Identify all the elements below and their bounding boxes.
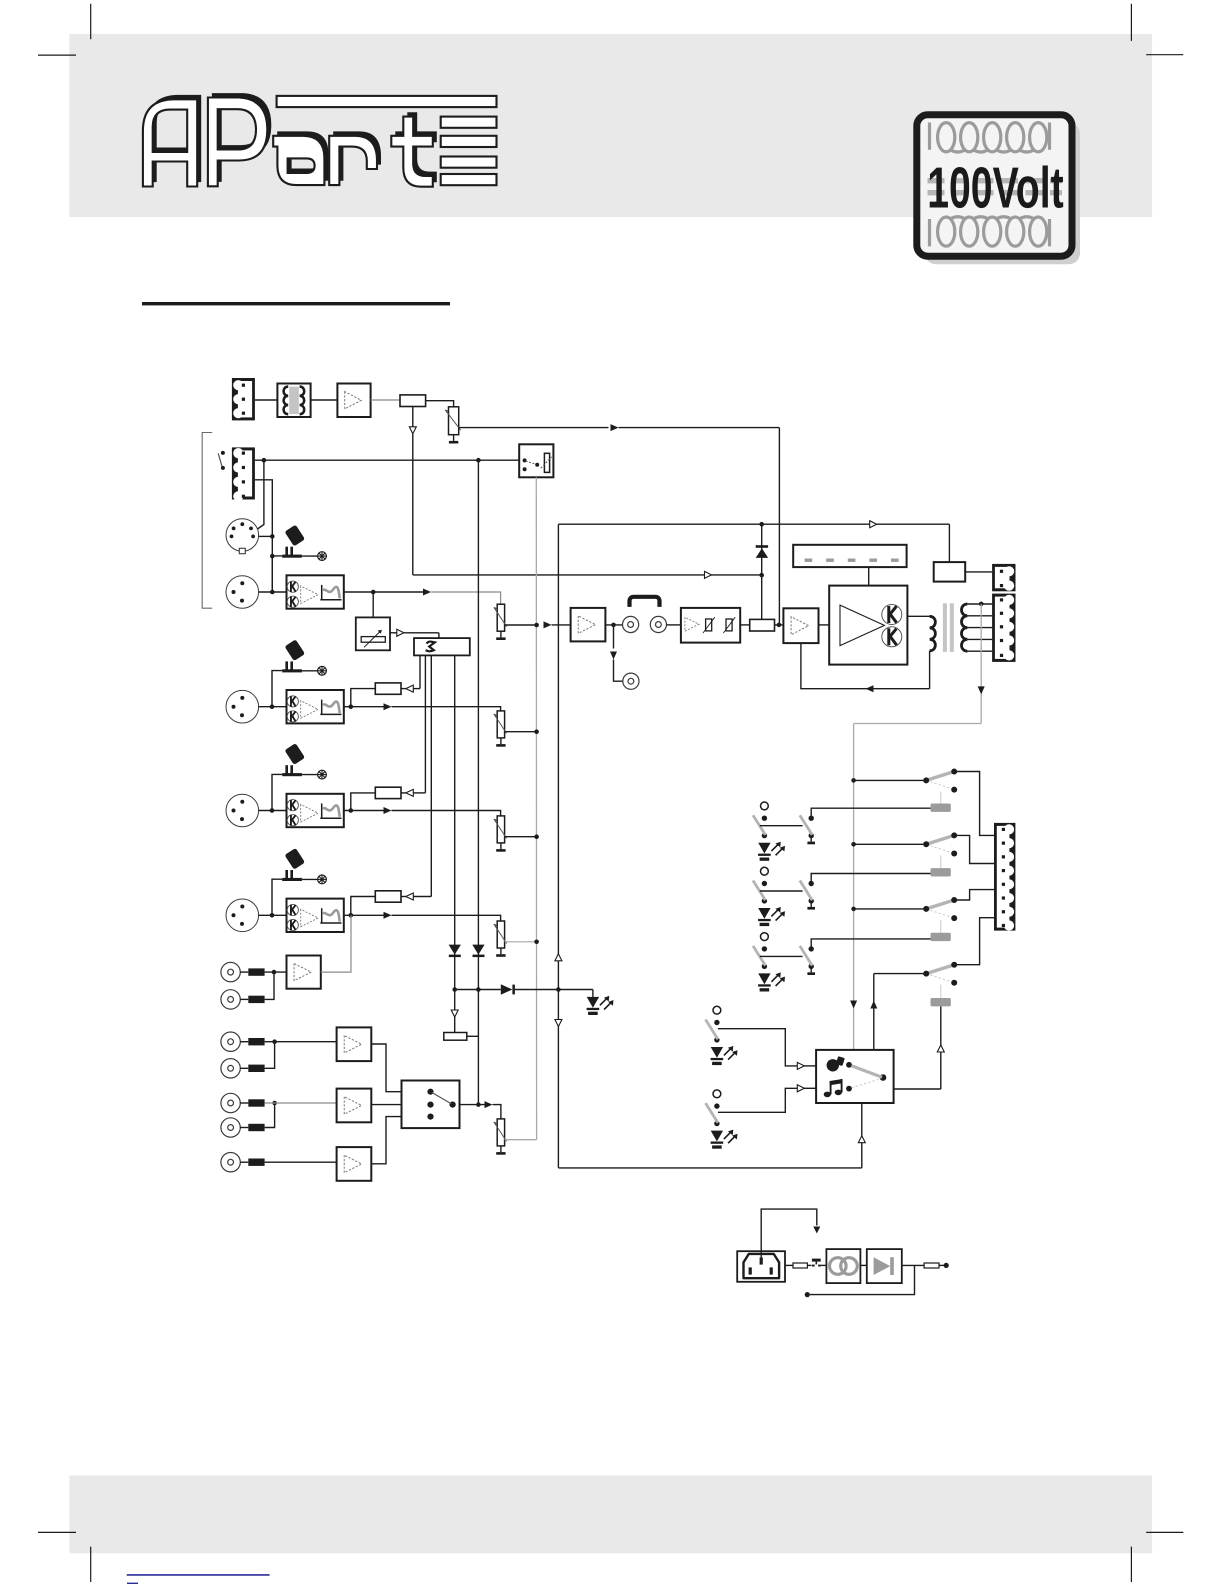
crop mark bottom-left horizontal — [38, 1531, 76, 1533]
badge dashed lines — [928, 178, 1063, 183]
power switch S4 — [812, 1259, 821, 1267]
footer band — [69, 1476, 1152, 1554]
wire ch2 to fader — [392, 707, 501, 711]
wire line3 to amp C — [265, 1161, 337, 1163]
arrow sense down — [978, 686, 985, 694]
24V supply box — [934, 562, 966, 582]
node ch4 out — [349, 913, 354, 918]
wire J2 to DIN — [258, 460, 264, 529]
wire ch2 preamp out — [344, 706, 384, 708]
microphone symbol ch3 — [272, 743, 326, 810]
relay K4 zone3 contacts — [923, 897, 957, 921]
100Volt badge — [917, 115, 1080, 264]
terminal block J2 paging — [232, 447, 255, 501]
wire to booster RCA — [614, 660, 623, 682]
diode D4 — [756, 545, 768, 558]
RCA connector line2 L — [221, 1093, 240, 1112]
terminal block J5 24V — [992, 564, 1015, 591]
wire line A — [761, 524, 763, 620]
node ch3 mix — [534, 834, 539, 839]
node zone bus relay1 — [851, 778, 856, 783]
RCA connector line1 L — [221, 1032, 240, 1051]
preamp U2 ch1 — [287, 575, 344, 608]
wire U6 to selector — [371, 1044, 401, 1092]
crop mark bottom-left vertical — [90, 1547, 92, 1582]
wire sense to zone bus — [854, 723, 982, 725]
wire chime A to selector — [718, 1029, 797, 1066]
RCA preout — [623, 616, 639, 632]
capacitor line2 R — [248, 1124, 264, 1131]
output transformer T2 — [930, 603, 968, 652]
wire XLR ch3 to preamp — [259, 810, 287, 812]
arrow into summing amp — [544, 621, 552, 628]
open arrow chime B — [797, 1085, 804, 1092]
wire 24V to terminal — [965, 571, 992, 573]
arrow down preout — [610, 652, 617, 660]
wire chime B to selector — [718, 1088, 797, 1112]
relay K3 zone2 contacts — [923, 832, 957, 856]
potentiometer ch3 level — [494, 816, 507, 852]
wire driver to power amp — [819, 624, 830, 626]
node ch1 input — [270, 590, 275, 595]
wire aux L to amp — [265, 971, 287, 973]
preamp ch4 — [287, 899, 344, 932]
resistor R1 — [400, 395, 426, 407]
amplifier U7 line2 — [337, 1089, 372, 1123]
wire switch to transformer — [821, 1264, 826, 1266]
pushbutton zone3 — [753, 933, 768, 969]
pushbutton chime A — [706, 1006, 721, 1042]
APart logo — [143, 93, 497, 187]
node supply return — [805, 1292, 810, 1297]
wire ch2 mute branch — [351, 689, 376, 707]
node ch2 input — [270, 704, 275, 709]
diode D3 series — [501, 984, 515, 995]
input group bracket — [202, 433, 212, 609]
wire power amp to transformer — [907, 615, 929, 617]
open arrow X down — [555, 1020, 562, 1027]
capacitor aux R — [248, 996, 264, 1003]
wire relay4 coil to chime out — [940, 1006, 942, 1089]
wire F2 to supply node — [939, 1264, 944, 1266]
node ch2 mix — [534, 729, 539, 734]
wire zone2 to relay coil — [811, 874, 930, 884]
driver amplifier U11 — [783, 608, 818, 643]
node preout — [611, 623, 616, 628]
wire feedback up to transformer — [929, 651, 931, 689]
driver feedback loop — [801, 643, 930, 689]
diode D1 mute bus4 — [449, 945, 461, 958]
wire mute ch4 to bus — [413, 896, 431, 898]
LED mute indicator — [587, 996, 614, 1015]
wire ch1 to fader gray — [431, 592, 501, 604]
wire line2 join — [265, 1103, 275, 1128]
wire mute sense to node A — [413, 574, 762, 576]
wire U1 to R1 — [371, 399, 400, 401]
node line A mute — [759, 573, 764, 578]
node bus5 LED — [476, 987, 481, 992]
relay K2 coil — [931, 791, 951, 812]
wire paging bus — [255, 459, 519, 461]
wire XLR ch2 to preamp — [259, 706, 287, 708]
wire mute ch3 to bus — [413, 792, 425, 794]
node ch1 mix — [534, 623, 539, 628]
potentiometer ch2 level — [494, 711, 507, 747]
node supply plus — [944, 1263, 949, 1268]
node DIN junction — [270, 534, 275, 539]
RCA connector line1 R — [221, 1059, 240, 1078]
wire R1 to P1 — [426, 401, 454, 407]
earth arrow — [813, 1227, 820, 1234]
fuse F2 — [924, 1263, 939, 1268]
open arrow music mute — [451, 1010, 458, 1017]
wire J4 to preamp — [259, 591, 287, 593]
microphone symbol ch4 — [272, 848, 326, 915]
wire zone3 NO to terminal — [954, 890, 994, 900]
node line2 — [272, 1101, 277, 1106]
wire ch1 wiper to mix bus — [505, 624, 537, 626]
fuse F1 — [793, 1263, 807, 1268]
open arrow chime feedback — [858, 1136, 865, 1143]
node selector out — [476, 1102, 481, 1107]
node ch1 out — [371, 590, 376, 595]
resistor R2 music mute — [444, 1033, 467, 1041]
selector switch S2 music — [402, 1081, 460, 1129]
wire mute bus 2 — [424, 655, 426, 793]
wire line2 L — [240, 1102, 248, 1104]
wire ch4 mute branch — [351, 897, 376, 916]
node ch4 mix — [534, 940, 539, 945]
blue footer text remnant — [127, 1583, 138, 1584]
node driver input — [777, 623, 782, 628]
relay K4 coil — [931, 920, 951, 941]
amplifier U6 line1 — [337, 1027, 372, 1061]
open arrow chime A — [797, 1062, 804, 1069]
wire line2 to amp B — [265, 1102, 337, 1104]
wire X line — [557, 524, 559, 1168]
switch contact zone2 — [800, 881, 815, 910]
preamp ch2 — [287, 690, 344, 723]
switch contact zone3 — [800, 946, 815, 975]
terminal block J1 music source — [232, 378, 255, 420]
open arrow X up — [555, 954, 562, 961]
capacitor line1 R — [248, 1065, 264, 1072]
crop mark bottom-right horizontal — [1146, 1531, 1183, 1533]
wire master top — [558, 523, 949, 525]
wire line2 R — [240, 1127, 248, 1129]
microphone symbol ch1 — [270, 525, 326, 592]
arrow ch4 signal — [384, 912, 392, 919]
XLR connector ch4 — [226, 899, 259, 932]
wire line1 to amp A — [265, 1041, 337, 1043]
pushbutton zone3 LED — [758, 972, 785, 991]
pushbutton chime A LED — [711, 1046, 738, 1065]
node speaker sense — [979, 602, 984, 607]
wire secondary taps — [967, 603, 992, 605]
capacitor line3 — [248, 1159, 264, 1166]
wire mute bus 1 — [419, 655, 421, 688]
wire VU to power amp — [868, 567, 870, 586]
IEC mains inlet — [737, 1251, 785, 1282]
svg-text:100Volt: 100Volt — [927, 155, 1063, 220]
relay K5 coil — [931, 985, 951, 1007]
wire line3 — [240, 1161, 248, 1163]
RCA connector line2 R — [221, 1118, 240, 1137]
node ch4 input — [270, 913, 275, 918]
open arrow relay4 coil — [937, 1045, 944, 1052]
wire zone3 to relay coil — [811, 939, 930, 949]
switch contact zone1 — [800, 815, 815, 844]
compressor/vox detector U3 — [356, 617, 390, 650]
pushbutton zone1 LED — [758, 842, 785, 861]
amplifier U5 aux — [287, 956, 321, 989]
pushbutton zone1 — [753, 802, 768, 838]
node ch3 out — [349, 808, 354, 813]
wire U8 to selector — [371, 1117, 401, 1164]
pushbutton zone2 LED — [758, 907, 785, 926]
arrow music signal — [485, 1101, 493, 1108]
wire zone bus down — [853, 724, 855, 1050]
VU meter — [793, 545, 906, 567]
amplifier U8 line3 — [337, 1147, 372, 1181]
badge top coil — [938, 123, 955, 152]
wire ch4 wiper to mix bus — [505, 941, 537, 943]
wire mute bus 4 — [454, 655, 456, 1032]
wire aux R join — [265, 972, 274, 999]
resistor mute ch2 — [375, 683, 413, 694]
wire line1 L — [240, 1041, 248, 1043]
RCA ampin — [650, 616, 666, 632]
RCA connector line3 — [221, 1153, 240, 1172]
wire zone2 button link — [760, 890, 803, 892]
wire ch1 to compressor — [372, 592, 374, 617]
wire bus5 down — [477, 460, 479, 1104]
open arrow master top — [870, 521, 877, 528]
wire ch4 to fader — [392, 915, 501, 921]
wire T3 to rectifier — [860, 1264, 866, 1266]
wire mute indicator line — [455, 989, 501, 991]
resistor R3 — [750, 619, 775, 631]
node paging-DIN — [262, 458, 267, 463]
XLR connector J4 ch1 — [226, 576, 259, 609]
node ch2 out — [349, 704, 354, 709]
pushbutton chime B — [706, 1090, 721, 1126]
wire ch1 preamp out — [344, 591, 424, 593]
jumper bracket preout-ampin — [630, 597, 660, 607]
wire zone4 NO to terminal — [954, 918, 994, 965]
wire aux R — [240, 998, 248, 1000]
mains transformer T3 — [826, 1249, 860, 1283]
wire relay4 common — [874, 973, 926, 975]
wire LED drop — [592, 990, 594, 997]
pushbutton chime B LED — [711, 1130, 738, 1149]
wire zone1 button link — [760, 825, 803, 827]
wire ch2 wiper to mix bus — [505, 731, 537, 733]
wire U3 out — [390, 632, 397, 634]
diode D2 mute bus5 — [472, 945, 484, 958]
switch S1 priority — [218, 451, 225, 470]
wire aux L — [240, 971, 248, 973]
pushbutton zone2 — [753, 867, 768, 903]
wire fuse to switch — [807, 1264, 811, 1266]
terminal block J6 speaker out — [992, 594, 1015, 662]
wire mix bus gray — [535, 477, 537, 1139]
wire chime box down — [861, 1103, 863, 1168]
node paging-bus5 — [476, 458, 481, 463]
wire line B down to driver node — [778, 428, 780, 625]
XLR connector ch3 — [226, 794, 259, 827]
power amplifier U12 — [829, 586, 907, 665]
wire R2 to selector node — [467, 1035, 479, 1037]
resistor mute ch4 — [375, 891, 413, 902]
capacitor aux L — [248, 968, 264, 975]
crop mark top-right vertical — [1130, 4, 1132, 41]
relay K1 vox — [519, 444, 553, 477]
wire limiter to R3 — [740, 624, 750, 626]
wire supply return — [810, 1265, 915, 1294]
wire R3 to driver — [775, 624, 784, 626]
wire ampin to limiter — [667, 624, 681, 626]
potentiometer P1 music level — [445, 407, 461, 444]
resistor mute ch3 — [375, 787, 413, 798]
wire line1 R — [240, 1067, 248, 1069]
capacitor line2 L — [248, 1099, 264, 1106]
crop mark top-left vertical — [90, 4, 92, 40]
node ch3 input — [270, 808, 275, 813]
mute ramp generator U4 — [414, 638, 470, 655]
wire ch3 to fader — [392, 811, 501, 816]
wire J3 to node — [259, 535, 273, 537]
priority selector S3 mic/music — [816, 1050, 894, 1103]
header band — [69, 34, 1152, 217]
relay K5 zone4 contacts — [923, 962, 957, 986]
wire speaker sense down — [980, 604, 982, 724]
summing amplifier U9 — [571, 608, 606, 642]
wire music to fader — [493, 1105, 501, 1119]
potentiometer P6 music — [494, 1119, 507, 1155]
wire zone1 to relay coil — [811, 808, 930, 818]
terminal block J7 zones — [994, 823, 1015, 931]
arrow feedback — [866, 685, 874, 692]
node zone bus relay2 — [851, 842, 856, 847]
wire mute ch2 to bus — [413, 688, 420, 690]
node X line LED — [556, 987, 561, 992]
wire inlet to fuse — [785, 1264, 793, 1266]
DIN connector J3 — [226, 519, 259, 554]
arrow ch3 signal — [384, 807, 392, 814]
RCA connector aux L — [221, 962, 240, 981]
XLR connector ch2 — [226, 690, 259, 723]
wire T1 to amp U1 — [311, 399, 338, 401]
arrow ch1 signal — [423, 589, 431, 596]
wire ch4 preamp out — [344, 914, 384, 916]
wire line1 join — [265, 1042, 275, 1069]
wire chime to X line — [558, 1167, 861, 1169]
badge bottom coil — [938, 217, 955, 246]
wire zone1 NO to terminal — [954, 772, 994, 836]
wire zone2 NO to terminal — [954, 835, 994, 863]
wire P1 wiper to line B — [459, 427, 609, 429]
blue footer rule — [127, 1574, 270, 1576]
wire J1 to T1 — [255, 399, 278, 401]
node line A top — [759, 522, 764, 527]
crop mark top-left horizontal — [38, 54, 76, 56]
wire ch3 wiper to mix bus — [505, 836, 537, 838]
node aux — [272, 970, 277, 975]
wire U9 out — [605, 624, 622, 626]
relay K3 coil — [931, 855, 951, 876]
node bus4 LED — [452, 987, 457, 992]
arrow zone bus into chime box — [850, 1001, 857, 1009]
RCA connector aux R — [221, 990, 240, 1009]
wire aux amp to ch4 node — [321, 915, 351, 972]
wire zone3 button link — [760, 955, 803, 957]
rectifier D5 — [867, 1249, 902, 1283]
wire music wiper to mix bus — [505, 1139, 537, 1141]
wire selector out — [460, 1104, 486, 1106]
wire ch3 mute branch — [351, 793, 376, 811]
arrow ch2 signal — [384, 703, 392, 710]
wire rectifier out — [902, 1264, 924, 1266]
wire to 24V box — [948, 524, 950, 562]
RCA booster out — [623, 673, 639, 689]
crop mark bottom-right vertical — [1130, 1547, 1132, 1582]
microphone symbol ch2 — [272, 639, 326, 706]
potentiometer ch4 level — [494, 921, 507, 957]
wire R1 branch down — [412, 407, 414, 427]
wire earth — [761, 1209, 817, 1257]
wire mute bus 3 — [430, 655, 432, 896]
title rule — [142, 302, 450, 305]
wire U7 to selector — [371, 1104, 401, 1106]
wire D3 to LED — [515, 989, 593, 991]
input transformer T1 — [277, 384, 310, 418]
limiter U10 — [681, 608, 740, 643]
relay K2 zone1 contacts — [923, 769, 957, 793]
wire ch3 preamp out — [344, 810, 384, 812]
crop mark top-right horizontal — [1146, 54, 1183, 56]
potentiometer P2 ch1 level — [494, 604, 507, 640]
node line1 — [272, 1039, 277, 1044]
capacitor line1 L — [248, 1038, 264, 1045]
wire chime out to relay4 — [894, 1088, 941, 1090]
preamp ch3 — [287, 794, 344, 827]
amplifier U1 music source — [337, 384, 370, 418]
wire J2 pin4 down — [255, 480, 272, 592]
node zone bus relay3 — [851, 907, 856, 912]
wire preout branch down — [613, 625, 615, 649]
wire XLR ch4 to preamp — [259, 914, 287, 916]
